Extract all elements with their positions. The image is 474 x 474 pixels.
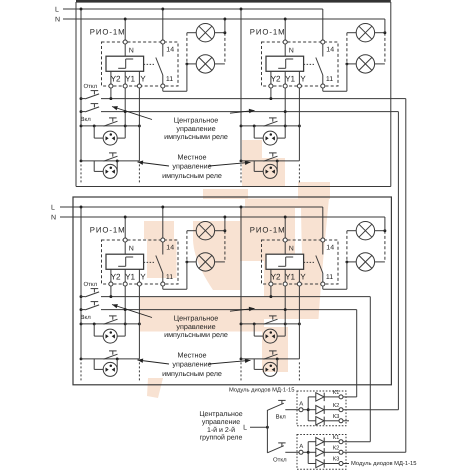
- svg-text:Y: Y: [300, 74, 306, 83]
- svg-text:управление: управление: [202, 419, 240, 426]
- svg-text:РИО-1М: РИО-1М: [250, 28, 286, 37]
- svg-text:N: N: [289, 47, 294, 54]
- svg-text:К3: К3: [333, 456, 340, 463]
- svg-text:импульсным реле: импульсным реле: [162, 171, 222, 180]
- svg-text:Модуль диодов МД-1-15: Модуль диодов МД-1-15: [351, 461, 416, 467]
- svg-text:Y: Y: [300, 272, 306, 281]
- svg-text:А: А: [299, 401, 303, 408]
- svg-text:К1: К1: [333, 435, 340, 441]
- svg-text:импульсными реле: импульсными реле: [164, 330, 228, 339]
- svg-text:Y2: Y2: [111, 272, 121, 281]
- svg-text:11: 11: [166, 76, 173, 83]
- svg-text:Y1: Y1: [125, 74, 135, 83]
- svg-text:управление: управление: [172, 162, 211, 171]
- svg-text:14: 14: [166, 244, 174, 251]
- svg-text:Y1: Y1: [285, 74, 295, 83]
- svg-text:N: N: [55, 17, 60, 24]
- svg-text:К2: К2: [333, 402, 340, 409]
- svg-text:Откл: Откл: [84, 281, 98, 288]
- svg-text:Откл: Откл: [273, 457, 287, 464]
- svg-text:1-й и 2-й: 1-й и 2-й: [207, 426, 235, 434]
- svg-text:L: L: [51, 205, 55, 212]
- svg-text:Y2: Y2: [111, 74, 121, 83]
- svg-text:Местное: Местное: [178, 350, 207, 359]
- svg-text:РИО-1М: РИО-1М: [90, 28, 126, 37]
- svg-text:импульсным реле: импульсным реле: [162, 369, 222, 378]
- svg-text:Модуль диодов МД-1-15: Модуль диодов МД-1-15: [229, 387, 294, 393]
- svg-text:14: 14: [326, 244, 334, 251]
- svg-text:Y: Y: [140, 74, 146, 83]
- svg-text:Y2: Y2: [271, 272, 281, 281]
- svg-text:К1: К1: [333, 390, 340, 396]
- svg-text:К2: К2: [333, 444, 340, 451]
- svg-text:Y2: Y2: [271, 74, 281, 83]
- svg-text:Местное: Местное: [178, 152, 207, 161]
- svg-text:11: 11: [326, 274, 333, 281]
- svg-text:Откл: Откл: [84, 83, 98, 90]
- svg-text:11: 11: [326, 76, 333, 83]
- svg-text:Центральное: Центральное: [199, 411, 242, 418]
- svg-text:Y: Y: [140, 272, 146, 281]
- svg-text:N: N: [129, 245, 134, 252]
- svg-text:14: 14: [166, 46, 174, 53]
- svg-text:Y1: Y1: [285, 272, 295, 281]
- svg-text:РИО-1М: РИО-1М: [90, 226, 126, 235]
- svg-text:группой реле: группой реле: [200, 434, 243, 442]
- svg-text:Вкл: Вкл: [81, 314, 92, 321]
- svg-text:L: L: [243, 425, 247, 432]
- svg-text:Вкл: Вкл: [276, 413, 287, 420]
- svg-text:А: А: [299, 443, 303, 450]
- svg-text:К3: К3: [333, 413, 340, 420]
- svg-text:Вкл: Вкл: [81, 116, 92, 123]
- svg-text:Y1: Y1: [125, 272, 135, 281]
- svg-text:N: N: [129, 47, 134, 54]
- svg-text:РИО-1М: РИО-1М: [250, 226, 286, 235]
- svg-text:N: N: [289, 245, 294, 252]
- svg-text:импульсными реле: импульсными реле: [164, 132, 228, 141]
- svg-text:N: N: [51, 215, 56, 222]
- svg-text:14: 14: [326, 46, 334, 53]
- svg-text:L: L: [55, 7, 59, 14]
- svg-text:управление: управление: [172, 360, 211, 369]
- svg-text:11: 11: [166, 274, 173, 281]
